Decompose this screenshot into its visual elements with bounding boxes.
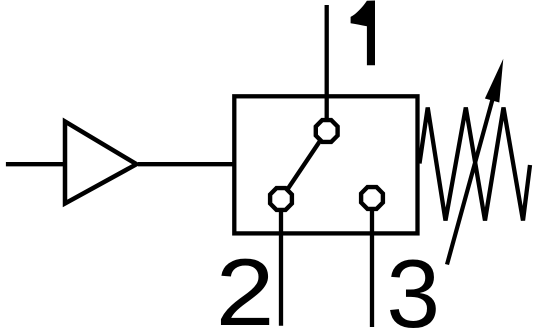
wire port 1 xyxy=(325,5,329,131)
label port 1 xyxy=(351,1,375,66)
adjustment spring xyxy=(420,108,531,221)
flow path 1 to 2 xyxy=(281,131,327,199)
svg-text:3: 3 xyxy=(386,241,440,333)
wire input left xyxy=(6,162,65,166)
adjustment arrow shaft xyxy=(447,94,494,265)
valve seat port 3 xyxy=(361,187,383,209)
wire port 2 xyxy=(279,199,283,326)
label port 2 xyxy=(216,240,275,333)
amplifier triangle xyxy=(65,122,137,204)
adjustment arrow head xyxy=(485,59,503,103)
wire triangle to valve body xyxy=(138,162,236,166)
valve seat port 2 xyxy=(270,188,292,210)
wire port 3 xyxy=(370,198,374,327)
valve body box xyxy=(234,96,417,233)
valve seat port 1 xyxy=(316,120,338,142)
svg-text:2: 2 xyxy=(216,240,275,333)
